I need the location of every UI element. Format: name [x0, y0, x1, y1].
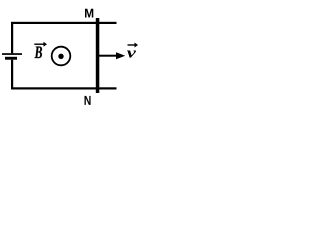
conducting rod MN: [96, 18, 100, 93]
field out-of-page symbol: circle: [52, 47, 71, 66]
arrow over B: [34, 42, 47, 47]
wire: left upper segment: [11, 22, 13, 53]
battery E: long plate (+): [2, 53, 22, 55]
wire: bottom rail: [11, 87, 117, 89]
velocity arrow (rod motion): [99, 52, 125, 59]
arrow over v: [128, 43, 139, 48]
wire: left lower segment: [11, 60, 13, 90]
node label M: [85, 9, 93, 18]
field label B (vector): [35, 46, 43, 58]
field out-of-page symbol: center dot: [58, 54, 63, 59]
wire: top rail: [11, 22, 117, 24]
background: [0, 0, 143, 111]
battery E: short thick plate (-): [5, 57, 17, 60]
node label N: [85, 96, 91, 105]
velocity label v (vector): [127, 50, 136, 57]
